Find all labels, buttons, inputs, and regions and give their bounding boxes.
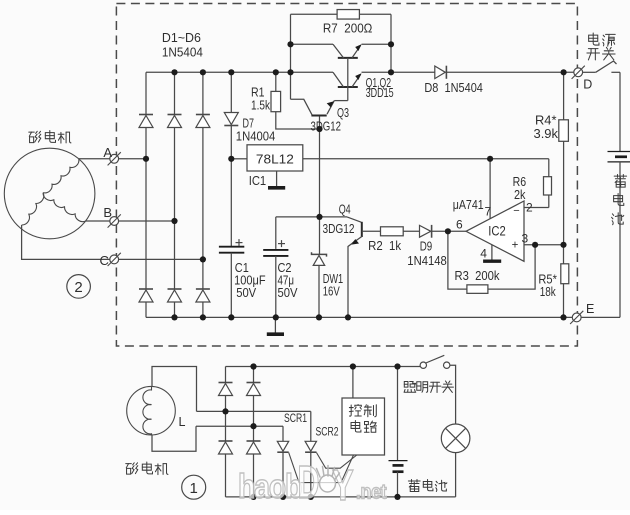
svg-text:D9: D9 — [420, 240, 433, 254]
svg-text:D8 1N5404: D8 1N5404 — [424, 81, 483, 95]
svg-text:3DG12: 3DG12 — [323, 222, 355, 236]
svg-text:R3 200k: R3 200k — [455, 269, 501, 283]
svg-text:R7 200Ω: R7 200Ω — [323, 22, 373, 36]
svg-text:50V: 50V — [278, 286, 299, 300]
svg-text:SCR1: SCR1 — [284, 413, 307, 425]
svg-text:R2 1k: R2 1k — [368, 239, 402, 253]
svg-text:haob: haob — [238, 468, 301, 506]
svg-text:IC1: IC1 — [249, 174, 267, 188]
svg-text:3: 3 — [522, 232, 529, 246]
svg-text:μA741: μA741 — [453, 198, 484, 212]
svg-text:3.9k: 3.9k — [534, 127, 559, 141]
svg-text:L: L — [179, 415, 186, 429]
svg-text:R4*: R4* — [535, 114, 557, 128]
svg-text:R6: R6 — [513, 175, 527, 189]
svg-text:E: E — [586, 302, 594, 316]
svg-text:−: − — [513, 205, 519, 217]
svg-text:1N4004: 1N4004 — [236, 130, 276, 144]
svg-text:6: 6 — [456, 218, 463, 232]
svg-text:3DD15: 3DD15 — [366, 86, 394, 100]
svg-text:16V: 16V — [323, 285, 340, 299]
svg-text:C: C — [100, 253, 109, 268]
svg-text:D: D — [298, 458, 320, 509]
svg-text:IC2: IC2 — [488, 224, 506, 239]
svg-text:2k: 2k — [514, 188, 526, 202]
svg-text:2: 2 — [74, 279, 82, 296]
svg-text:+: + — [512, 240, 519, 252]
svg-text:1N4148: 1N4148 — [407, 254, 447, 268]
svg-text:Q4: Q4 — [339, 203, 351, 217]
svg-text:1: 1 — [190, 480, 198, 497]
svg-text:3DG12: 3DG12 — [311, 119, 342, 133]
svg-text:7: 7 — [485, 205, 492, 219]
svg-text:D: D — [583, 77, 592, 91]
svg-text:Q3: Q3 — [337, 106, 349, 120]
svg-text:2: 2 — [526, 201, 533, 215]
svg-text:A: A — [103, 145, 112, 160]
svg-text:SCR2: SCR2 — [316, 427, 339, 439]
svg-text:.net: .net — [356, 482, 387, 504]
svg-text:4: 4 — [480, 247, 487, 261]
svg-text:50V: 50V — [236, 286, 257, 300]
svg-text:D1~D6: D1~D6 — [162, 31, 201, 45]
svg-text:B: B — [103, 205, 112, 220]
svg-text:D7: D7 — [243, 116, 255, 130]
svg-text:1.5k: 1.5k — [251, 99, 271, 113]
svg-text:78L12: 78L12 — [256, 152, 294, 167]
svg-text:1N5404: 1N5404 — [162, 46, 203, 60]
svg-text:R1: R1 — [251, 86, 265, 100]
svg-text:18k: 18k — [540, 285, 557, 299]
